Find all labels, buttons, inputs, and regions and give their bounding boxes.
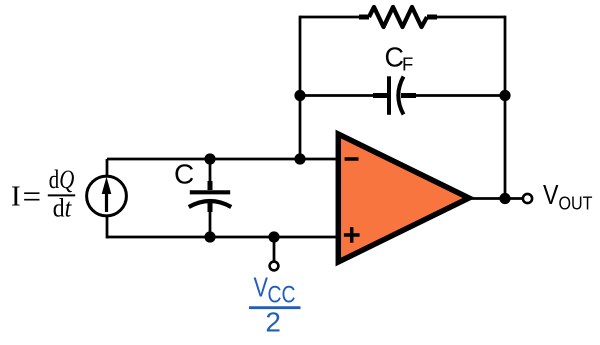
label I = dQ/dt (11, 165, 75, 223)
svg-text:CC: CC (268, 281, 296, 308)
wire: inverting input (107, 158, 336, 161)
wire: current source top stub (106, 159, 109, 178)
current source I (87, 176, 127, 216)
wire: right feedback vertical (504, 16, 507, 199)
svg-text:=: = (23, 179, 42, 215)
node: CF left junction (294, 90, 305, 101)
capacitor C (189, 159, 231, 237)
svg-text:V: V (543, 179, 559, 210)
op-amp U1 (338, 134, 469, 262)
wire: CF branch left (300, 94, 376, 97)
wire: top feedback left segment (300, 16, 362, 19)
label VCC/2 (249, 272, 301, 338)
node: CF right junction (499, 90, 510, 101)
wire: current source bottom stub (106, 214, 109, 238)
wire: left feedback vertical (299, 16, 302, 159)
node: C bottom junction (204, 231, 215, 242)
capacitor CF (373, 76, 416, 115)
svg-text:V: V (254, 272, 269, 303)
terminal: Vcc open circle (270, 262, 279, 271)
svg-text:I: I (11, 181, 21, 213)
svg-text:2: 2 (265, 307, 281, 338)
svg-text:OUT: OUT (559, 193, 593, 214)
wire: output (467, 197, 523, 200)
node: C top junction (204, 153, 215, 164)
wire: CF branch right (412, 94, 505, 97)
resistor RF (359, 7, 437, 27)
svg-text:dQ: dQ (49, 165, 75, 194)
wire: non-inverting input (107, 236, 336, 239)
svg-text:C: C (174, 159, 194, 190)
wire: top feedback right segment (434, 16, 505, 19)
node: feedback/inverting junction (294, 153, 305, 164)
svg-text:F: F (402, 54, 413, 75)
node: Vcc junction (268, 231, 279, 242)
wire: Vcc stub (273, 237, 276, 261)
svg-text:dt: dt (53, 194, 72, 223)
terminal: Vout open circle (523, 194, 532, 203)
node: output junction (499, 193, 510, 204)
